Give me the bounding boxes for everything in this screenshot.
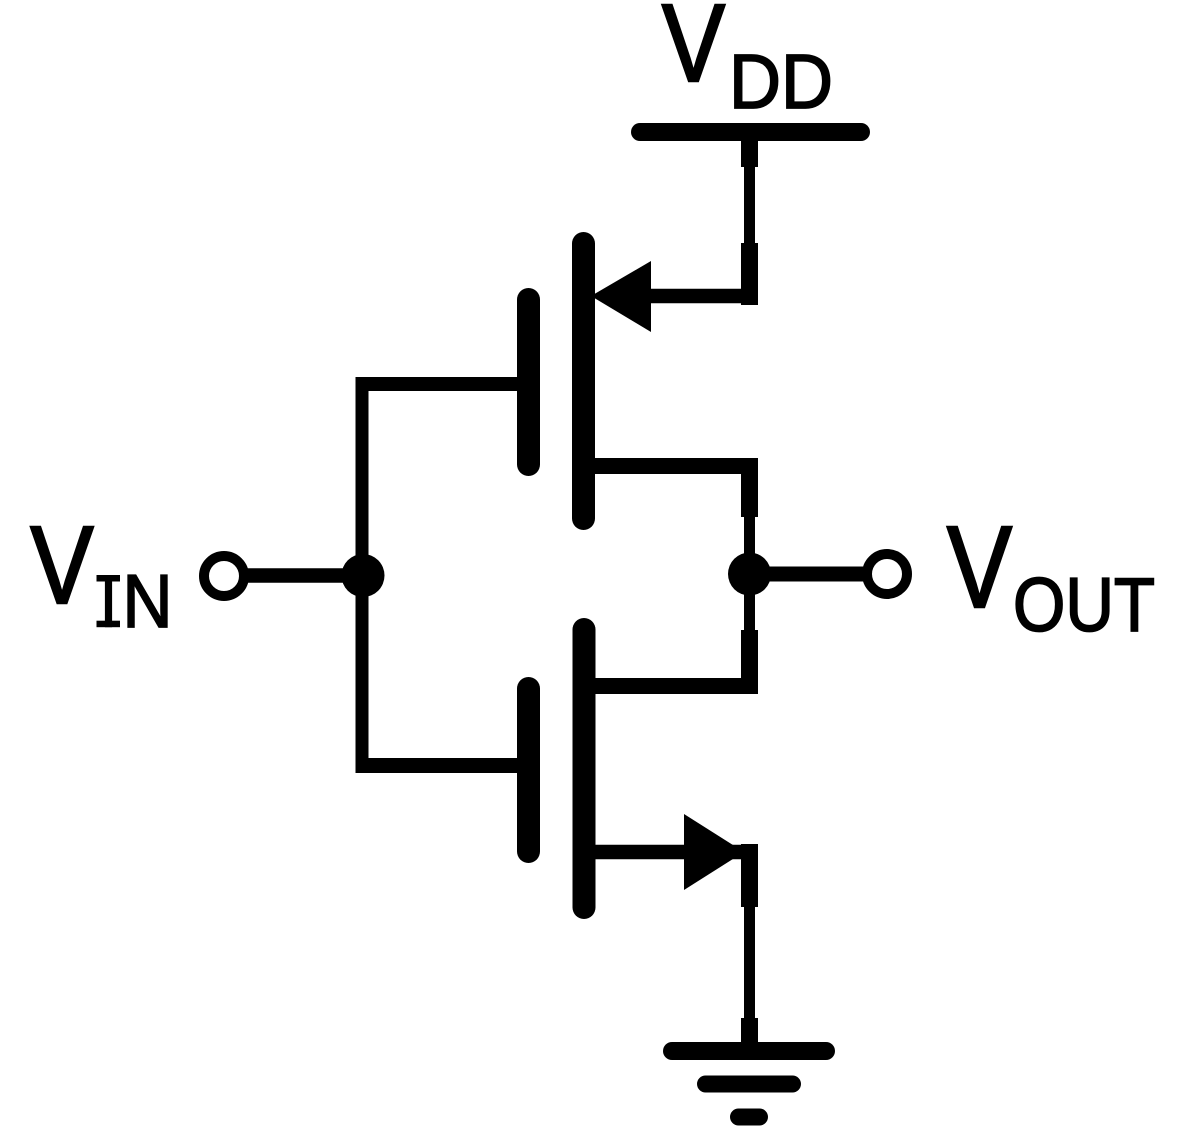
wire M2 source to ground [744,903,755,1022]
power rail VDD [640,123,861,141]
junction node VIN [342,554,385,597]
svg-text:V: V [662,0,725,105]
transistor M2 NMOS gate bar [517,689,540,852]
wire gate bus vertical [356,378,369,773]
ground bar 1 [672,1042,826,1060]
label VOUT [947,502,1155,648]
pin stub M2 drain [741,630,758,694]
transistor M1 PMOS gate bar [517,300,540,465]
wire M2 drain lead [595,678,757,694]
svg-text:N: N [123,559,173,643]
svg-text:OUT: OUT [1013,563,1155,648]
ground bar 2 [706,1076,793,1093]
pin stub M1 source [741,243,758,305]
transistor M2 NMOS source arrow [684,814,744,890]
transistor M2 NMOS channel bar [573,630,596,908]
wire M1 drain lead [595,458,757,474]
terminal VIN open circle [204,556,244,596]
pin stub M2 source [741,844,758,907]
pin stub ground [741,1018,758,1045]
wire M1 drain to output node [744,513,755,556]
transistor M1 PMOS source arrow [591,261,651,332]
terminal VOUT open circle [867,554,907,594]
wire input node to M2 gate [356,758,518,773]
svg-text:V: V [947,502,1012,632]
wire output node to M2 drain [744,592,755,634]
svg-text:V: V [31,504,94,627]
label VDD [662,0,833,125]
pin stub M1 drain [741,458,758,517]
wire VDD to M1 source [744,163,755,247]
wire input node to M1 gate [356,377,518,391]
wire output node to VOUT terminal [750,567,864,582]
wire M2 source lead [595,845,757,860]
pin stub VDD rail to wire [741,138,758,167]
transistor M1 PMOS channel bar [572,244,595,519]
ground bar 3 [739,1109,760,1126]
wire VIN terminal to input node [246,568,363,583]
junction node VOUT [728,553,771,596]
label VIN [31,504,173,643]
svg-text:DD: DD [729,39,833,125]
wire M1 source lead [640,289,757,304]
